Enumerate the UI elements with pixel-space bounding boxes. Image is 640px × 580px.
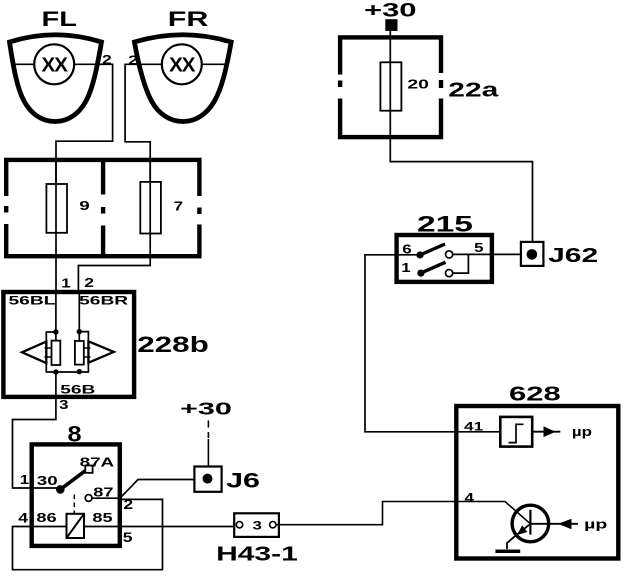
dashed feed line xyxy=(207,421,209,439)
svg-text:+30: +30 xyxy=(180,399,232,419)
transistor Q1 xyxy=(507,505,549,549)
switch pivot bottom xyxy=(417,270,424,277)
svg-text:2: 2 xyxy=(128,54,138,68)
wire +30 through fuse 20 to J62 xyxy=(390,30,532,242)
switch arm top xyxy=(420,244,445,255)
svg-text:J6: J6 xyxy=(226,468,260,492)
left indicator lamp element xyxy=(52,341,61,365)
right arrow (right beam) xyxy=(88,341,113,362)
wire fuse 7 to 228b pin 2 xyxy=(78,160,150,292)
svg-text:4: 4 xyxy=(465,492,475,505)
wire relay pin5 coil to H43-1 xyxy=(84,526,237,528)
svg-text:7: 7 xyxy=(174,199,183,214)
left arrow (left beam) xyxy=(22,342,46,364)
junction J6 xyxy=(194,467,221,492)
fuse holder 22a xyxy=(336,37,445,137)
wire pin2 inside 228b xyxy=(78,292,80,341)
relay 8 xyxy=(32,444,120,546)
contact 87 circle xyxy=(85,495,92,502)
svg-text:µp: µp xyxy=(572,425,592,440)
svg-text:5: 5 xyxy=(474,241,483,256)
svg-text:3: 3 xyxy=(253,520,262,533)
svg-text:56BR: 56BR xyxy=(79,295,129,308)
wire relay pin2 to J6 xyxy=(120,480,194,499)
svg-text:87: 87 xyxy=(93,486,113,500)
svg-text:86: 86 xyxy=(36,511,56,525)
svg-text:3: 3 xyxy=(59,398,68,413)
relay switch arm xyxy=(60,470,87,490)
fuse 7 xyxy=(140,182,161,234)
svg-text:6: 6 xyxy=(402,242,411,257)
svg-text:J62: J62 xyxy=(548,245,598,267)
wire contact bottom branch xyxy=(453,254,469,273)
wire relay pin4 coil to loop xyxy=(13,499,163,569)
svg-text:FR: FR xyxy=(168,6,209,30)
svg-text:56BL: 56BL xyxy=(9,295,56,308)
lamp FL xyxy=(10,7,102,121)
svg-text:+30: +30 xyxy=(364,0,417,21)
trigger block U1 xyxy=(500,417,532,447)
wire pin1 inside 228b xyxy=(55,292,57,341)
svg-text:228b: 228b xyxy=(137,332,209,357)
svg-text:85: 85 xyxy=(92,511,112,525)
svg-text:2: 2 xyxy=(102,53,112,67)
svg-text:µp: µp xyxy=(584,517,607,532)
relay switch pivot dot xyxy=(56,485,65,494)
control unit 628 xyxy=(456,406,618,559)
svg-text:20: 20 xyxy=(407,78,429,92)
svg-text:2: 2 xyxy=(84,276,94,290)
wire FL pin2 to fuse 9 xyxy=(56,64,113,184)
svg-text:628: 628 xyxy=(509,382,561,405)
switch arm bottom xyxy=(421,262,446,273)
svg-text:9: 9 xyxy=(79,199,89,213)
svg-text:22a: 22a xyxy=(448,79,499,101)
arrow from microprocessor bottom xyxy=(530,519,578,530)
svg-text:41: 41 xyxy=(464,421,483,434)
svg-text:30: 30 xyxy=(37,475,58,488)
svg-text:XX: XX xyxy=(169,54,196,77)
bracket wires xyxy=(46,332,88,372)
svg-text:1: 1 xyxy=(20,473,29,488)
junction J62 xyxy=(521,242,544,266)
ground xyxy=(495,550,520,554)
fuse box xyxy=(3,160,204,256)
wire FR pin2 to fuse 7 xyxy=(125,64,150,182)
contact bottom xyxy=(446,270,453,277)
svg-text:H43-1: H43-1 xyxy=(216,543,298,565)
wire 215 pin6 to 628 pin41 xyxy=(365,255,500,432)
arrow to microprocessor top xyxy=(532,426,560,437)
junction dot top-right xyxy=(77,329,82,334)
dashed actuator link xyxy=(73,495,75,514)
connector H43-1 xyxy=(234,513,279,537)
fuse 9 xyxy=(46,184,67,233)
wire fuse 9 to 228b pin 1 xyxy=(55,160,57,292)
flasher unit 228b xyxy=(3,292,134,397)
right indicator lamp element xyxy=(75,341,84,365)
wire H43-1 to 628 pin4 xyxy=(276,502,530,525)
lamp FR xyxy=(134,6,231,121)
junction dot top-left xyxy=(53,329,58,334)
svg-text:2: 2 xyxy=(123,498,133,513)
svg-text:FL: FL xyxy=(42,7,77,31)
junction dot bottom-right xyxy=(77,369,82,374)
switch 215 xyxy=(397,235,492,282)
wire 228b pin3 to relay pin1 xyxy=(13,372,59,488)
svg-text:1: 1 xyxy=(61,276,70,291)
contact top xyxy=(446,251,453,258)
svg-text:5: 5 xyxy=(123,531,133,546)
fuse 20 xyxy=(380,62,401,110)
junction dot bottom-left xyxy=(53,369,58,374)
relay coil xyxy=(67,514,85,538)
switch pivot top xyxy=(416,251,423,258)
+30 terminal square xyxy=(385,19,397,31)
left arrow stubs xyxy=(45,348,52,357)
right arrow stubs xyxy=(84,348,91,357)
svg-text:56B: 56B xyxy=(60,384,95,397)
wire relay pin2 contact 87 xyxy=(90,497,120,499)
wire contact top to J62 xyxy=(453,253,521,255)
wire +30 to J6 xyxy=(207,439,209,467)
svg-text:XX: XX xyxy=(42,54,69,77)
svg-text:1: 1 xyxy=(401,261,410,276)
svg-text:4: 4 xyxy=(18,511,28,526)
contact 87A square xyxy=(85,466,92,473)
